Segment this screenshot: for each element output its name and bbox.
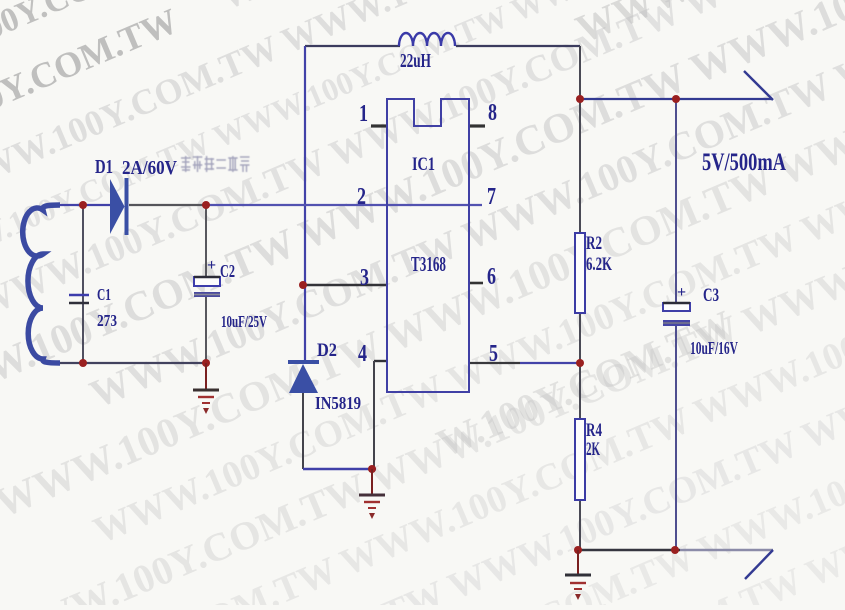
svg-text:6: 6 bbox=[487, 264, 496, 290]
svg-text:7: 7 bbox=[487, 184, 496, 210]
svg-text:4: 4 bbox=[358, 341, 367, 367]
svg-text:22uH: 22uH bbox=[400, 50, 431, 72]
svg-text:R4: R4 bbox=[586, 420, 602, 441]
svg-text:+: + bbox=[207, 257, 216, 274]
svg-text:IN5819: IN5819 bbox=[315, 393, 361, 413]
svg-text:C1: C1 bbox=[97, 285, 111, 304]
svg-text:+: + bbox=[677, 284, 686, 301]
svg-text:10uF/16V: 10uF/16V bbox=[690, 338, 738, 358]
svg-text:1: 1 bbox=[359, 101, 368, 127]
svg-text:C3: C3 bbox=[703, 285, 719, 306]
svg-text:D1: D1 bbox=[95, 156, 113, 178]
svg-text:10uF/25V: 10uF/25V bbox=[221, 312, 267, 331]
svg-text:D2: D2 bbox=[317, 340, 337, 361]
svg-text:2K: 2K bbox=[586, 439, 600, 460]
svg-text:8: 8 bbox=[488, 100, 497, 126]
svg-text:T3168: T3168 bbox=[411, 252, 446, 276]
svg-text:R2: R2 bbox=[586, 233, 602, 254]
svg-text:5V/500mA: 5V/500mA bbox=[702, 149, 786, 176]
svg-text:6.2K: 6.2K bbox=[586, 254, 612, 275]
svg-text:5: 5 bbox=[489, 341, 498, 367]
svg-text:C2: C2 bbox=[220, 261, 235, 281]
svg-text:2: 2 bbox=[357, 184, 366, 210]
svg-text:IC1: IC1 bbox=[412, 154, 435, 175]
svg-text:3: 3 bbox=[360, 265, 369, 291]
svg-text:2A/60V: 2A/60V bbox=[122, 157, 177, 179]
svg-text:273: 273 bbox=[97, 311, 117, 330]
